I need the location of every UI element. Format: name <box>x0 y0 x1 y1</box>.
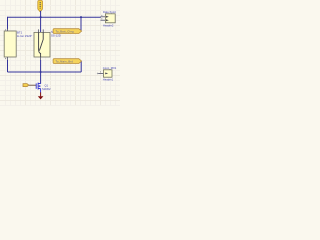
junction at top rail and port drop <box>80 16 82 18</box>
pin 1 of J2 <box>98 72 104 74</box>
pin number 2 mark of J1 <box>101 18 102 19</box>
pin number 1 mark of BT1 <box>5 29 6 30</box>
pin number 2 mark of BT1 <box>5 58 6 59</box>
port P1 (upper, to top rail) <box>53 29 82 34</box>
pin 1 of BT1 (top) <box>7 29 9 31</box>
svg-text:Data Xport: Data Xport <box>103 10 116 14</box>
port GATE (small port at transistor gate) <box>23 84 29 87</box>
pin 1 of J1 <box>100 16 105 18</box>
wire vertical from VCC port to switch <box>40 11 42 33</box>
svg-text:Header2: Header2 <box>103 23 114 27</box>
component SW1 body (switch rectangle) <box>34 32 50 57</box>
pin 2 of BT1 (bottom) <box>7 57 9 60</box>
wire horizontal bottom rail <box>8 71 82 73</box>
pin arrows inside J1 <box>106 16 109 18</box>
pin 2 of SW1 (top right) <box>42 29 44 32</box>
junction at bottom rail and drain wire <box>40 71 42 73</box>
wire from BT1 bottom down <box>7 60 9 72</box>
svg-text:Conn_MX1: Conn_MX1 <box>103 66 117 70</box>
transistor Q1 (N-MOSFET) <box>36 83 40 93</box>
wire from gate port to gate pin <box>29 84 36 86</box>
svg-text:To_Batt_Chrg: To_Batt_Chrg <box>56 30 75 33</box>
pin 3 of SW1 (bottom) <box>40 57 42 60</box>
port P2 (lower) <box>53 59 82 64</box>
wire horizontal top rail <box>8 16 101 18</box>
svg-text:Li-Ion 2S2P: Li-Ion 2S2P <box>17 34 32 38</box>
svg-text:Q1: Q1 <box>45 84 49 88</box>
connector J2 body (single pin, bottom right) <box>103 70 112 77</box>
pin 1 of SW1 (top left) <box>38 29 40 32</box>
power port VCC (vertical port at top) <box>38 1 43 12</box>
connector J1 body (header 2 top right) <box>105 14 115 23</box>
pin hotspot tick of J2 <box>97 73 99 75</box>
pin 2 of J1 <box>100 19 105 21</box>
ground (power port GND, arrow style) <box>38 92 44 99</box>
svg-text:SS-12D: SS-12D <box>51 33 61 37</box>
svg-text:SI2302: SI2302 <box>42 87 51 91</box>
pin number 1 mark of J1 <box>101 15 102 16</box>
switch contact lines inside SW1 <box>39 32 41 57</box>
component BT1 body (left rectangle) <box>4 31 16 57</box>
svg-text:Header1: Header1 <box>103 77 114 81</box>
wire left drop to battery <box>7 17 9 29</box>
wire drop from top rail to port P1 <box>80 17 82 30</box>
svg-text:To_Main_Brd: To_Main_Brd <box>56 60 74 63</box>
wire from SW1 bottom to transistor drain <box>40 60 42 83</box>
pin arrow inside J2 <box>105 73 108 75</box>
pin number 1 mark of J2 <box>100 71 101 72</box>
wire from port P2 down to bottom rail <box>80 62 82 72</box>
junction at top rail and VCC wire <box>40 16 42 18</box>
